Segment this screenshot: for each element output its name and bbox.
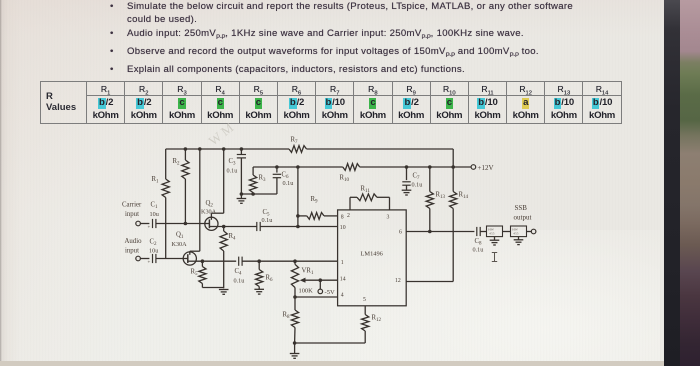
capacitor C6 0.1u (273, 167, 294, 194)
svg-text:R2: R2 (173, 158, 181, 167)
svg-text:HW: HW (512, 228, 518, 232)
node carrier line x298 junction (296, 225, 300, 229)
capacitor C1 10u (148, 202, 159, 231)
svg-text:output: output (514, 214, 532, 222)
svg-text:5: 5 (363, 297, 366, 303)
node top rail junction Q2 drain (222, 147, 226, 151)
ground under filter 2 (514, 237, 524, 245)
svg-text:10: 10 (340, 225, 346, 231)
ground under R4/R5 (219, 290, 229, 295)
wire pin 6 output (406, 231, 474, 233)
resistor R10 (340, 164, 360, 184)
node R13 top junction (428, 165, 432, 169)
node R6 junction (257, 259, 261, 263)
svg-text:-5V: -5V (325, 289, 335, 296)
svg-text:VR1: VR1 (302, 268, 314, 277)
svg-text:0.1u: 0.1u (262, 217, 273, 224)
wire pin 12 to R14 bottom (406, 281, 453, 283)
svg-text:R9: R9 (311, 196, 319, 205)
capacitor C2 10u (148, 239, 159, 266)
terminal carrier input (122, 202, 142, 226)
resistor R12 (362, 306, 382, 343)
wire C2 to Q1 gate (156, 258, 183, 260)
svg-text:R12: R12 (372, 315, 382, 324)
svg-text:R8: R8 (283, 312, 291, 321)
svg-text:R11: R11 (361, 186, 371, 195)
node Q1 source junction (201, 259, 205, 263)
svg-text:0.1u: 0.1u (234, 278, 245, 285)
wire top rail right segment (307, 148, 454, 150)
resistor R2 (173, 149, 190, 224)
wire R5 bottom bus to R4 ground (202, 284, 223, 288)
wire bottom bus to R12 (295, 342, 366, 344)
terminal +12V (471, 164, 493, 172)
wire bias bus y194 (241, 193, 277, 195)
pin 2 label (347, 213, 350, 219)
pin 12 label (395, 278, 401, 284)
svg-text:10u: 10u (150, 211, 159, 218)
svg-text:C7: C7 (413, 173, 421, 182)
svg-text:C2: C2 (150, 239, 158, 248)
pin 4 label (341, 292, 344, 298)
potentiometer VR1 100K (291, 261, 337, 297)
svg-text:C8: C8 (475, 238, 483, 247)
pin 1 label (341, 260, 344, 266)
resistor R13 (426, 167, 445, 232)
resistor R3 (250, 167, 267, 194)
node C6 top junction (275, 165, 279, 169)
resistor R6 (256, 261, 273, 286)
svg-text:3: 3 (387, 214, 390, 220)
wire C4 to pin 1 (242, 260, 338, 262)
node R14 top junction (451, 165, 455, 169)
node top rail junction Q1 drain (198, 147, 202, 151)
resistor R4 (220, 227, 236, 289)
node Q2 source junction (222, 225, 226, 229)
transistor Q1 K30A (172, 232, 197, 266)
node R8 bottom junction (293, 341, 297, 345)
node R13 bottom junction (428, 230, 432, 234)
pin 6 label (399, 229, 402, 235)
wire filter2 to output terminal (527, 231, 532, 233)
transistor Q2 K30A (201, 200, 218, 230)
svg-text:R1: R1 (152, 176, 160, 185)
node C7 junction (405, 165, 409, 169)
resistor R5 (191, 261, 207, 283)
capacitor C3 0.1u (227, 149, 247, 175)
svg-text:0.1u: 0.1u (473, 247, 484, 254)
node -5V tap junction (319, 278, 323, 282)
svg-text:R10: R10 (340, 175, 350, 184)
capacitor C5 0.1u (257, 209, 273, 231)
wire Q1 source to C4 (196, 260, 236, 262)
node top rail junction C3 (240, 147, 244, 151)
svg-text:455: 455 (513, 232, 518, 236)
wire Q1 drain jog to rail (190, 149, 200, 251)
svg-text:100K: 100K (299, 288, 314, 295)
svg-text:4: 4 (341, 292, 344, 298)
svg-text:+: + (148, 261, 151, 266)
svg-text:C4: C4 (235, 268, 243, 277)
svg-text:R6: R6 (266, 275, 274, 284)
svg-text:0.1u: 0.1u (227, 168, 238, 175)
node +12V rail junction x298 (296, 165, 300, 169)
wire C1 to Q2 gate (156, 223, 205, 225)
svg-text:C6: C6 (282, 172, 290, 181)
resistor R14 (450, 167, 469, 282)
wire Q2 source to C5 (218, 226, 257, 228)
node C3 bottom junction (240, 192, 244, 196)
svg-text:Q2: Q2 (206, 200, 214, 209)
filter block 2 (511, 226, 527, 237)
wire filter1 to filter2 (503, 231, 511, 233)
node carrier line R2 junction (184, 222, 188, 226)
ground under filter 1 (490, 237, 500, 245)
terminal audio input (125, 238, 143, 261)
pin 14 label (340, 276, 346, 282)
wire top rail left segment (166, 148, 289, 150)
svg-text:C1: C1 (151, 202, 159, 211)
svg-text:0.1u: 0.1u (283, 180, 294, 187)
pin 5 label (363, 297, 366, 303)
resistor R11 (350, 186, 390, 210)
svg-text:8: 8 (341, 214, 344, 220)
ground under C3 (237, 194, 247, 203)
wire C3 to bottom bus (240, 158, 242, 194)
svg-text:Q1: Q1 (176, 232, 184, 241)
pin 3 label (387, 214, 390, 220)
wire carrier input to C1 (140, 223, 149, 225)
svg-text:10u: 10u (149, 248, 158, 255)
svg-text:0.1u: 0.1u (412, 182, 423, 189)
wire top-rail right corner down to +12V rail (452, 149, 454, 167)
svg-text:+12V: +12V (478, 164, 494, 172)
svg-text:R4: R4 (229, 233, 237, 242)
node R9 junction (296, 214, 300, 218)
svg-text:2: 2 (347, 213, 350, 219)
svg-text:C5: C5 (263, 209, 271, 218)
text cursor I-beam (492, 253, 497, 262)
wire audio input to C2 (140, 258, 149, 260)
svg-text:455: 455 (489, 232, 494, 236)
pin 10 label (340, 225, 346, 231)
svg-text:12: 12 (395, 278, 401, 284)
node R3 bottom junction (251, 192, 255, 196)
node VR1 top junction (293, 259, 297, 263)
capacitor C8 0.1u (473, 227, 484, 254)
svg-text:R5: R5 (191, 269, 199, 278)
wire +12V rail (253, 166, 471, 168)
svg-text:Audio: Audio (125, 238, 143, 245)
terminal -5V (318, 280, 335, 296)
svg-text:LM1496: LM1496 (361, 251, 383, 258)
node top rail junction R2 (184, 147, 188, 151)
svg-text:R3: R3 (259, 175, 267, 184)
svg-text:R13: R13 (436, 192, 446, 201)
ground under R6 (254, 287, 264, 295)
capacitor C7 0.1u (402, 167, 422, 189)
terminal SSB output (514, 204, 536, 234)
wire VR1 bottom to pin 4 (295, 296, 338, 298)
node VR1 bottom junction (293, 295, 297, 299)
svg-text:Carrier: Carrier (122, 202, 142, 209)
resistor R8 (283, 297, 299, 343)
watermark diagonal (206, 120, 237, 149)
svg-text:C3: C3 (229, 158, 237, 167)
resistor R7 (289, 137, 307, 153)
wire C5 to pin 10 (260, 226, 337, 228)
svg-text:input: input (125, 248, 139, 255)
capacitor C4 0.1u (234, 257, 245, 285)
svg-text:14: 14 (340, 276, 346, 282)
svg-text:6: 6 (399, 229, 402, 235)
filter block 1 (487, 226, 503, 237)
desktop dark strip (664, 0, 680, 366)
wire Q2 drain jog to rail (211, 149, 223, 213)
svg-text:R7: R7 (291, 137, 299, 146)
svg-text:SSB: SSB (515, 204, 528, 212)
svg-text:input: input (125, 211, 139, 218)
svg-text:HW: HW (488, 228, 494, 232)
wire C8 to filter 1 (480, 231, 486, 233)
resistor R1 (152, 149, 170, 259)
pin 8 label (341, 214, 344, 220)
svg-text:+: + (148, 226, 151, 231)
op-amp U1 LM1496 body (338, 210, 407, 306)
svg-text:1: 1 (341, 260, 344, 266)
svg-text:K30A: K30A (201, 209, 217, 216)
ground under R8 (290, 343, 300, 358)
resistor R9 (298, 196, 338, 219)
ground under C7 (402, 185, 412, 195)
svg-text:R14: R14 (459, 192, 469, 201)
svg-text:K30A: K30A (172, 241, 188, 248)
wire bias vertical x298 (297, 167, 299, 227)
desktop wallpaper photo strip (680, 0, 700, 366)
